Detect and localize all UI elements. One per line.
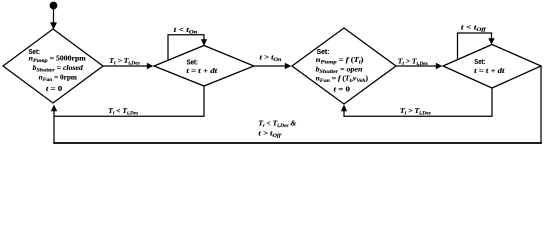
svg-text:Set:: Set: — [187, 59, 198, 66]
decision D4 (Set: t = t + dt) — [443, 45, 541, 89]
wire D2 to D3 — [254, 63, 291, 69]
wire D1 to D2 — [103, 63, 153, 69]
decision D2 (Set: t = t + dt) — [154, 46, 254, 87]
return wire D2 to D1 (Ti < Ti,Des) — [54, 86, 204, 116]
svg-text:t = 0: t = 0 — [334, 85, 351, 93]
wire start to decision D1 — [50, 9, 57, 30]
return wire D4 to D3 (Ti > Ti,Des) — [341, 88, 492, 116]
svg-text:Set:: Set: — [474, 59, 485, 66]
svg-text:t = 0: t = 0 — [46, 85, 63, 93]
decision D3 (Set: nPump=f(Ti)) — [292, 28, 396, 104]
loop wire D2 (t < tOn) — [168, 35, 207, 60]
wire D3 to D4 — [396, 63, 442, 69]
svg-text:t = t + dt: t = t + dt — [186, 67, 218, 75]
decision D1 (Set: nPump=5000rpm) — [3, 29, 103, 103]
loop wire D4 (t < tOff) — [458, 33, 495, 59]
start node — [50, 2, 58, 10]
return wire D4 to D1 (Ti < Ti,Des & t > tOff) — [51, 66, 542, 144]
svg-text:t = t + dt: t = t + dt — [474, 67, 506, 75]
